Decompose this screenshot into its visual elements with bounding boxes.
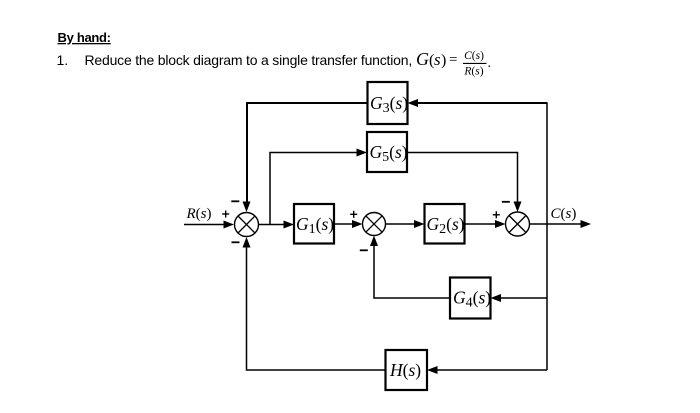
- svg-text:H(s): H(s): [389, 360, 421, 380]
- svg-text:G1(s): G1(s): [296, 214, 334, 237]
- svg-text:C(s): C(s): [551, 206, 577, 222]
- svg-text:1.: 1.: [57, 52, 69, 68]
- svg-text:G2(s): G2(s): [427, 214, 465, 237]
- svg-text:G: G: [416, 49, 429, 69]
- svg-text:G5(s): G5(s): [370, 142, 408, 165]
- svg-text:.: .: [488, 56, 492, 71]
- svg-text:R(s): R(s): [463, 66, 483, 78]
- svg-text:s: s: [434, 50, 441, 69]
- svg-text:C(s): C(s): [464, 50, 484, 62]
- svg-text:Reduce the block diagram to a: Reduce the block diagram to a single tra…: [85, 52, 413, 68]
- svg-text:By hand:: By hand:: [58, 30, 111, 45]
- svg-text:): ): [441, 52, 446, 69]
- svg-text:=: =: [449, 52, 457, 68]
- svg-text:R(s): R(s): [186, 206, 212, 222]
- svg-text:G3(s): G3(s): [370, 93, 408, 116]
- svg-text:G4(s): G4(s): [453, 288, 491, 311]
